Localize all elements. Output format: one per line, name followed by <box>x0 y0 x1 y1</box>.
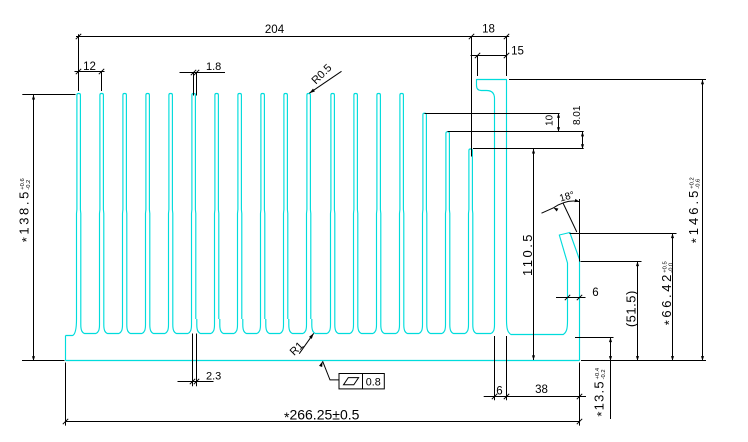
dim 12 tick left <box>76 69 81 74</box>
dim 8.01 arrow bottom <box>581 144 584 149</box>
fin 18 <box>469 149 473 319</box>
dim 138.5 text <box>17 178 34 242</box>
svg-text:15: 15 <box>511 46 524 58</box>
channel 4-5 <box>150 319 169 334</box>
channel fin18-wall <box>473 319 495 334</box>
svg-text:*66.42: *66.42 <box>659 272 677 325</box>
dim 1.8 tick left <box>191 70 196 75</box>
dim 12 dimension line <box>75 71 105 73</box>
fin 1 <box>77 94 81 320</box>
svg-text:12: 12 <box>83 61 96 73</box>
leader R1 arrow <box>309 333 314 339</box>
dim 146.5 arrow bottom <box>701 356 704 361</box>
channel 9-10 <box>266 319 284 334</box>
svg-text:*13.5: *13.5 <box>592 380 610 416</box>
fin 11 <box>307 94 311 320</box>
extension line base bottom left <box>22 360 65 362</box>
svg-text:8.01: 8.01 <box>572 105 583 125</box>
dim 1.8 extension line left <box>193 73 195 96</box>
extension line x506 <box>506 336 508 400</box>
dim 204 tick right <box>469 34 474 39</box>
fin 6 <box>192 94 196 320</box>
svg-text:1.8: 1.8 <box>206 61 221 73</box>
fin 12 <box>331 94 335 320</box>
dim 204/18 dimension line <box>76 36 509 38</box>
svg-text:0.8: 0.8 <box>366 376 381 388</box>
dim 8.01 line <box>582 132 584 149</box>
dim 51.5 arrow top <box>636 262 639 267</box>
dim 2.3 extension line right <box>196 334 198 387</box>
svg-text:(51.5): (51.5) <box>624 290 639 327</box>
fin 10 <box>284 94 288 320</box>
dim 138.5 arrow top <box>32 95 35 100</box>
dim 13.5 arrow top <box>609 338 612 343</box>
dim 266.25 tick left <box>63 419 68 424</box>
step extension line y113 <box>425 113 560 115</box>
dim 138.5 line <box>33 95 35 361</box>
dim 6 wall tick left <box>565 295 570 300</box>
dim 15 tick right <box>504 53 509 58</box>
fin 5 <box>169 94 173 320</box>
dim 146.5 text <box>686 177 704 243</box>
step extension line y132 <box>448 131 584 133</box>
angle 18 slant extension line <box>563 203 577 232</box>
channel 16-17 <box>427 319 446 334</box>
dim 66.42 text <box>659 261 677 325</box>
channel 13-14 <box>358 319 377 334</box>
dim 266.25 tick right <box>577 419 582 424</box>
fin 3 <box>123 94 127 320</box>
dim 138.5 arrow bottom <box>32 356 35 361</box>
dim 12 tick right <box>99 69 104 74</box>
fin 4 <box>146 94 150 320</box>
flatness frame box <box>339 374 384 389</box>
svg-text:2.3: 2.3 <box>206 371 221 383</box>
svg-text:*138.5: *138.5 <box>17 189 34 242</box>
dim 1.8 dimension line <box>180 72 226 74</box>
dim 110.5 line <box>533 149 535 360</box>
channel 1-2 <box>81 319 100 334</box>
dim 2.3 tick right <box>194 379 199 384</box>
svg-text:6: 6 <box>592 287 598 299</box>
base left ledge <box>66 319 77 336</box>
dim 110.5 text <box>520 232 535 276</box>
dim 10 line <box>558 113 560 132</box>
fin 7 <box>215 94 219 320</box>
extension line base bottom right <box>581 360 706 362</box>
channel 6-7 <box>197 319 215 334</box>
dim 38 tick right <box>577 394 582 399</box>
extension line base top right <box>575 337 614 339</box>
dim 13.5 arrow bottom <box>609 356 612 361</box>
fin 17 <box>446 132 450 319</box>
dim 15 extension line <box>477 55 479 76</box>
dim 6 wall dimension line <box>556 297 586 299</box>
dim 6 bottom tick left <box>492 394 497 399</box>
dim 2.3 tick left <box>190 379 195 384</box>
channel 7-8 <box>220 319 238 334</box>
leader R0.5 arrow <box>309 89 315 94</box>
leader R1 text <box>288 340 306 358</box>
svg-text:110.5: 110.5 <box>520 232 535 276</box>
channel 11-12 <box>312 319 331 334</box>
flatness symbol <box>344 378 359 385</box>
dim 1.8 extension line right <box>196 73 198 96</box>
channel 3-4 <box>127 319 146 334</box>
extension line 51.5 top <box>581 261 642 263</box>
extension line x579 <box>579 363 581 426</box>
dim 6 wall tick right <box>577 295 582 300</box>
right wall with top hook <box>477 80 507 320</box>
extension line x65 <box>65 363 67 426</box>
channel 15-16 <box>404 319 423 334</box>
dim 10 arrow bottom <box>557 127 560 132</box>
dim 51.5 arrow bottom <box>636 356 639 361</box>
extension line hook top <box>509 79 706 81</box>
angle 18 vertical reference line <box>579 199 581 262</box>
fin 8 <box>238 94 242 320</box>
dim 15 dimension line <box>471 55 507 57</box>
base left edge <box>65 336 67 361</box>
dim 12 extension line right <box>101 71 103 91</box>
channel 14-15 <box>381 319 400 334</box>
svg-text:38: 38 <box>535 384 548 396</box>
dim 2.3 extension line left <box>192 334 194 387</box>
svg-text:6: 6 <box>496 386 502 398</box>
leader R1 line <box>299 333 314 353</box>
dim 18 extension line right <box>506 36 508 76</box>
angle 18 arrow right <box>575 199 580 202</box>
channel 5-6 <box>173 319 192 334</box>
dim 266.25 dimension line <box>65 421 579 423</box>
dim 8.01 arrow top <box>581 132 584 137</box>
dim 6/38 dimension line <box>484 396 586 398</box>
svg-text:-0.2: -0.2 <box>601 369 607 379</box>
channel 2-3 <box>104 319 123 334</box>
flatness leader <box>323 361 339 380</box>
svg-text:*266.25±0.5: *266.25±0.5 <box>284 407 360 426</box>
angle 18 text <box>558 190 576 205</box>
base bottom edge <box>66 360 580 362</box>
dim 66.42 arrow top <box>671 234 674 239</box>
leader R0.5 line <box>309 71 341 93</box>
svg-text:-0.6: -0.6 <box>696 179 702 189</box>
leader R0.5 text <box>310 62 335 87</box>
dim 51.5 line <box>637 262 639 361</box>
svg-text:-0.0: -0.0 <box>669 263 675 273</box>
extension line x495 <box>494 336 496 400</box>
angle 18 arc tail <box>542 208 554 213</box>
dim 13.5 line <box>610 338 612 420</box>
dim 6 bottom tick mid <box>504 394 509 399</box>
svg-text:204: 204 <box>265 24 285 36</box>
svg-text:18: 18 <box>482 24 495 36</box>
dim 10 text <box>544 114 555 126</box>
dim 18 extension line <box>471 36 473 157</box>
dim 146.5 line <box>702 80 704 361</box>
dim 110.5 arrow top <box>532 149 535 154</box>
dim 204 extension line left <box>78 34 80 91</box>
svg-text:-0.2: -0.2 <box>26 180 32 190</box>
channel 12-13 <box>335 319 354 334</box>
fin 13 <box>354 94 358 320</box>
fin 15 <box>400 94 404 320</box>
dim 110.5 arrow bottom <box>532 355 535 360</box>
dim 204 tick left <box>76 34 81 39</box>
flatness leader arrow <box>319 361 323 367</box>
angle 18 arrow left <box>554 208 559 212</box>
svg-text:*146.5: *146.5 <box>686 188 704 244</box>
extension line slant top <box>570 233 677 235</box>
step extension line y149 <box>473 148 584 150</box>
fin 16 <box>423 113 427 319</box>
dim 8.01 text <box>572 105 583 125</box>
svg-text:10: 10 <box>544 114 555 126</box>
dim 66.42 line <box>672 234 674 361</box>
dim 146.5 arrow top <box>701 80 704 85</box>
dim 138.5 extension line top <box>22 94 75 96</box>
channel 17-18 <box>450 319 469 334</box>
dim 15 tick left <box>475 53 480 58</box>
dim 13.5 text <box>592 367 610 416</box>
dim 66.42 arrow bottom <box>671 356 674 361</box>
fin 14 <box>377 94 381 320</box>
dim 2.3 dimension line <box>178 381 214 383</box>
dim 1.8 tick right <box>194 70 199 75</box>
pocket floor and slanted wall <box>507 233 580 361</box>
dim 18 tick right <box>504 34 509 39</box>
dim 51.5 text <box>624 290 639 327</box>
dim 10 arrow top <box>557 113 560 118</box>
fin 2 <box>100 94 104 320</box>
fin 9 <box>261 94 265 320</box>
channel 8-9 <box>243 319 261 334</box>
angle 18 arc <box>554 201 580 208</box>
channel 10-11 <box>289 319 307 334</box>
